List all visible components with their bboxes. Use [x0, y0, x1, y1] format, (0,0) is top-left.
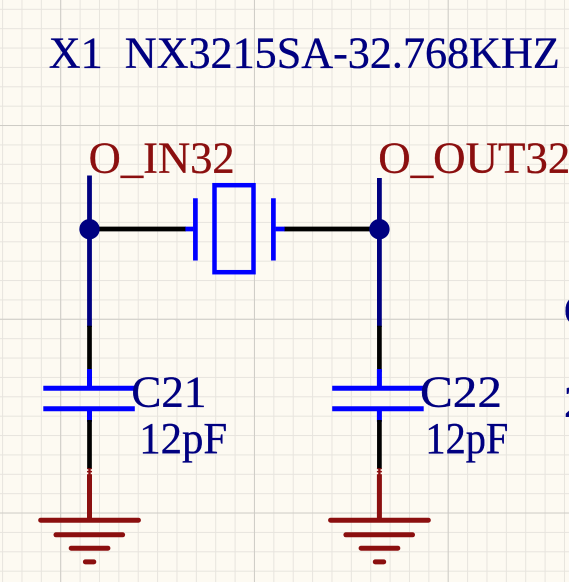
- capacitor C21 pin 1 (top lead): [87, 326, 92, 372]
- svg-text:12pF: 12pF: [139, 414, 227, 463]
- svg-text:O_IN32: O_IN32: [89, 134, 235, 183]
- svg-text:O_OUT32: O_OUT32: [378, 134, 569, 183]
- ground symbol GND (left): [41, 468, 139, 562]
- crystal X1 pin 2 (right horizontal lead): [284, 227, 379, 232]
- svg-text:C22: C22: [420, 368, 502, 417]
- svg-text:12pF: 12pF: [425, 414, 508, 463]
- wire net O_IN32 vertical segment: [87, 176, 92, 328]
- crystal X1 symbol: [185, 185, 284, 272]
- crystal X1 pin 1 (left horizontal lead): [90, 227, 187, 232]
- svg-text:X1 NX3215SA-32.768KHZ: X1 NX3215SA-32.768KHZ: [49, 28, 560, 77]
- svg-text:2: 2: [564, 377, 569, 426]
- svg-text:C: C: [564, 286, 569, 335]
- junction node O_IN32: [79, 219, 99, 239]
- ground symbol GND (right): [331, 468, 429, 562]
- pin hot-end marker at C22 pin 2 / GND junction: [375, 469, 384, 474]
- pin hot-end marker at C21 pin 2 / GND junction: [85, 469, 94, 474]
- junction node O_OUT32: [369, 219, 389, 239]
- capacitor C22 pin 1 (top lead): [377, 326, 382, 372]
- capacitor C22 symbol: [332, 369, 424, 422]
- wire net O_OUT32 vertical segment: [377, 178, 382, 327]
- svg-text:C21: C21: [131, 368, 206, 417]
- capacitor C22 pin 2 (bottom lead): [377, 420, 382, 469]
- capacitor C21 pin 2 (bottom lead): [87, 420, 92, 469]
- capacitor C21 symbol: [43, 369, 135, 422]
